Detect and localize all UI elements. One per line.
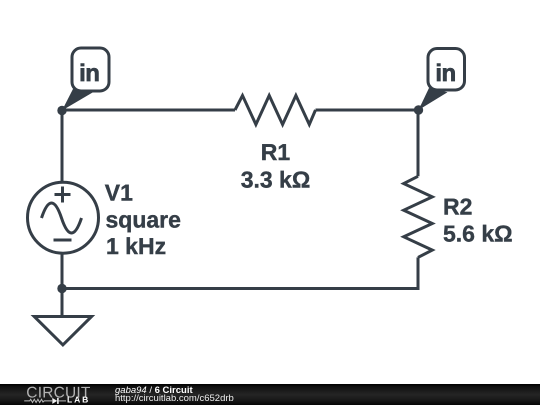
footer bar — [0, 384, 540, 405]
credit line 1 — [115, 386, 193, 396]
voltage source V1 — [28, 182, 99, 253]
node dot top-right — [414, 105, 423, 114]
svg-text:LAB: LAB — [67, 395, 90, 405]
resistor R1 — [235, 96, 316, 125]
svg-text:in: in — [435, 60, 455, 87]
ground — [34, 317, 91, 345]
wire junction to ground — [61, 289, 64, 317]
logo diode — [52, 398, 57, 404]
svg-text:3.3 kΩ: 3.3 kΩ — [241, 167, 311, 193]
resistor R2 — [404, 176, 433, 257]
flag pointer left — [62, 88, 93, 111]
svg-text:R1: R1 — [261, 139, 291, 165]
flag box right (in) — [428, 49, 465, 91]
wire V1 to bottom junction — [61, 253, 64, 289]
svg-text:V1: V1 — [105, 180, 133, 206]
svg-text:in: in — [79, 60, 99, 87]
svg-text:square: square — [106, 206, 181, 232]
logo resistor squiggle — [24, 399, 52, 402]
wire bottom rail — [62, 257, 418, 288]
wire R1 to top-right node — [316, 110, 419, 176]
flag pointer right — [419, 88, 448, 110]
junction dot bottom — [57, 284, 66, 293]
svg-text:R2: R2 — [443, 193, 472, 219]
svg-text:1 kHz: 1 kHz — [106, 233, 166, 259]
wire top-left node to R1 — [62, 109, 235, 112]
flag box left (in) — [72, 48, 109, 91]
wire top-left node down to V1 — [61, 110, 64, 183]
node dot top-left — [57, 106, 66, 115]
credit line 2 — [115, 394, 234, 404]
svg-text:5.6 kΩ: 5.6 kΩ — [443, 221, 513, 247]
